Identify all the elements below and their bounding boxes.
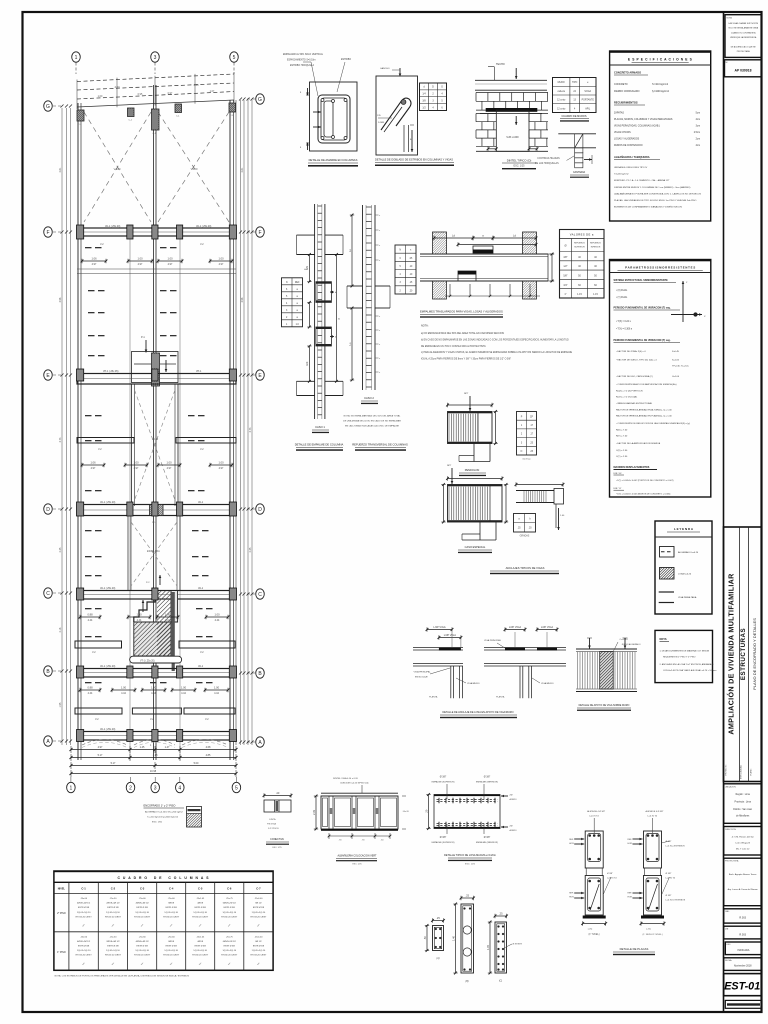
svg-text:REF: REF [295, 282, 300, 284]
svg-text:H/3: H/3 [305, 361, 309, 366]
svg-text:2.81: 2.81 [241, 167, 244, 172]
caso1 stirrup zones [316, 282, 332, 303]
svg-text:ESTR Ø 3/8: ESTR Ø 3/8 [78, 907, 90, 909]
svg-text:CONCRETO ARMADO: CONCRETO ARMADO [614, 71, 641, 75]
svg-text:G: G [258, 97, 262, 103]
svg-text:AP 030918: AP 030918 [735, 69, 752, 73]
svg-text:P-1: P-1 [141, 336, 145, 339]
svg-text:EMPALMAR AL 50% SOLO VERTICAL: EMPALMAR AL 50% SOLO VERTICAL [283, 53, 324, 56]
svg-text:CONTINUA HILADAS: CONTINUA HILADAS [537, 157, 560, 160]
beam row F [77, 228, 236, 236]
svg-text:4.85: 4.85 [206, 754, 211, 757]
detail U1 stirrup ties [318, 95, 350, 143]
svg-text:4Ø5/8: 4Ø5/8 [197, 903, 204, 905]
svg-text:4.97: 4.97 [98, 746, 103, 749]
svg-text:INFERIOR: INFERIOR [591, 247, 601, 249]
svg-text:RTO@.20 C/EXT: RTO@.20 C/EXT [192, 955, 209, 957]
svg-text:F: F [258, 230, 261, 236]
svg-text:3: 3 [154, 55, 157, 61]
svg-text:6Ø5/8+2Ø 1/2: 6Ø5/8+2Ø 1/2 [223, 941, 237, 943]
svg-text:12 cmto: 12 cmto [557, 99, 566, 102]
mid beams between E and D [77, 438, 134, 444]
svg-text:R.003: R.003 [739, 933, 746, 936]
column section B [461, 904, 474, 973]
svg-text:VA-1 (.25x.20): VA-1 (.25x.20) [100, 587, 115, 590]
stair shaft E-D [131, 384, 133, 506]
svg-text:NOTA:: NOTA: [660, 638, 668, 641]
svg-text:HOR.: HOR. [628, 897, 633, 899]
svg-text:1.47: 1.47 [165, 746, 170, 749]
svg-text:(B): (B) [465, 980, 468, 983]
stair shaft X bracing [135, 390, 176, 500]
dim groups E-D bay [82, 464, 104, 466]
svg-text:C-2: C-2 [111, 887, 116, 891]
svg-text:VALORES DE a: VALORES DE a [570, 233, 594, 237]
svg-text:1@.05+5@.10: 1@.05+5@.10 [106, 950, 120, 952]
svg-text:VA-1 (.25x.20): VA-1 (.25x.20) [100, 501, 115, 504]
parametros axis icon [682, 281, 684, 322]
table niveles T3 [282, 278, 303, 327]
svg-text:1.40: 1.40 [451, 935, 455, 941]
svg-text:.20: .20 [424, 809, 428, 813]
plan right wall [229, 100, 231, 760]
shaft above E [132, 352, 179, 383]
lintel brick courses [476, 92, 548, 94]
svg-text:L/3P VIGA: L/3P VIGA [433, 625, 445, 629]
svg-text:Ø: Ø [564, 244, 566, 248]
svg-text:REF.: REF. [569, 893, 574, 895]
slab anchor C arrows [589, 638, 591, 649]
svg-text:1@.05+5@.10: 1@.05+5@.10 [252, 912, 266, 914]
svg-text:ESTR Ø 3/8: ESTR Ø 3/8 [137, 946, 149, 948]
svg-text:VIGA/MURO: VIGA/MURO [541, 682, 554, 685]
svg-text:R.003: R.003 [739, 917, 746, 920]
svg-text:VIGAS CHATAS: VIGAS CHATAS [614, 131, 631, 134]
beam splice right dim [548, 253, 554, 255]
svg-text:FACTOR DE IRREGULARIDAD EN ALT: FACTOR DE IRREGULARIDAD EN ALTURA Ia, Q … [616, 409, 672, 412]
svg-text:4.97: 4.97 [134, 467, 139, 470]
svg-text:RTO@.20 C/EXT: RTO@.20 C/EXT [76, 955, 93, 957]
svg-text:1.05: 1.05 [486, 944, 490, 950]
svg-text:ESTR Ø 3/8: ESTR Ø 3/8 [107, 907, 119, 909]
svg-text:2: 2 [129, 785, 132, 791]
svg-text:.50: .50 [423, 936, 427, 940]
svg-text:D.MIN: D.MIN [378, 122, 385, 124]
svg-text:DETALLE DE AMARRE EN COLUMNAS: DETALLE DE AMARRE EN COLUMNAS [309, 158, 358, 162]
svg-text:TECHO: TECHO [496, 63, 505, 66]
svg-text:C-3: C-3 [140, 887, 145, 891]
svg-text:L/3P VIGA: L/3P VIGA [509, 625, 521, 629]
stair S2 leg [479, 522, 481, 540]
info box escala [725, 942, 761, 955]
svg-text:MAXIMOS DESPLAZAMIENTOS: MAXIMOS DESPLAZAMIENTOS [614, 466, 650, 469]
svg-text:HOR.: HOR. [628, 843, 633, 845]
svg-text:DETALLE TIPICO DE LOSA MACIZA: DETALLE TIPICO DE LOSA MACIZA e=0.20m [444, 854, 496, 857]
table refuerzos T4 [395, 245, 416, 294]
svg-text:4.00: 4.00 [193, 83, 199, 87]
svg-text:Z=0.45: Z=0.45 [672, 351, 680, 353]
svg-text:2.18: 2.18 [59, 627, 62, 632]
svg-text:1@.05+5@.10: 1@.05+5@.10 [222, 912, 236, 914]
svg-text:ALIGERADO h=0.20: ALIGERADO h=0.20 [678, 551, 699, 554]
svg-text:P/B VIGA: P/B VIGA [267, 823, 277, 826]
svg-text:VIGA/MURO: VIGA/MURO [467, 682, 480, 685]
svg-text:EN BLOQUE: EN BLOQUE [415, 677, 428, 679]
svg-text:RTO@.20 C/EXT: RTO@.20 C/EXT [250, 916, 267, 918]
beam splice column stubs [433, 232, 447, 254]
svg-text:U=1.00: U=1.00 [672, 376, 680, 378]
dashed arcs below A [82, 740, 127, 746]
info box profesionales [724, 858, 762, 906]
slab anchor detail B [484, 646, 566, 648]
slab anchor detail A [413, 646, 463, 648]
mid beams between B and A [75, 708, 122, 714]
svg-text:1.00: 1.00 [214, 613, 220, 617]
svg-text:G: G [46, 104, 50, 110]
plan grid 3 spine [153, 85, 155, 760]
svg-text:1.00: 1.00 [214, 686, 220, 690]
shaft hatched column [152, 353, 160, 386]
svg-text:CASO ESPECIAL: CASO ESPECIAL [465, 545, 486, 549]
svg-text:Ø 3/8": Ø 3/8" [666, 895, 672, 897]
svg-text:V-100: V-100 [152, 438, 159, 441]
svg-text:ESTR Ø 3/8: ESTR Ø 3/8 [195, 907, 207, 909]
svg-text:SOLO SE INSTALARAN EN OBRA: SOLO SE INSTALARAN EN OBRA [728, 27, 758, 30]
svg-text:1.95: 1.95 [59, 702, 62, 707]
svg-text:4.97: 4.97 [167, 467, 172, 470]
detail U1 stirrup box [310, 82, 358, 151]
svg-text:REF.: REF. [569, 839, 574, 841]
svg-text:L=0.70 y ESTRIBOS: L=0.70 y ESTRIBOS [666, 846, 686, 848]
svg-text:(1° NIVEL/2° NIVEL): (1° NIVEL/2° NIVEL) [642, 934, 662, 936]
beam row C [77, 591, 236, 600]
top bay X bracing left [84, 112, 151, 222]
svg-text:5/8": 5/8" [563, 275, 567, 278]
svg-text:DINTEL VIGA 0.14 x 0.20: DINTEL VIGA 0.14 x 0.20 [333, 777, 359, 780]
svg-text:C: C [258, 592, 262, 598]
svg-text:2.39: 2.39 [312, 809, 316, 815]
svg-text:.25x1.05: .25x1.05 [196, 898, 205, 900]
svg-text:4.68: 4.68 [206, 746, 211, 749]
svg-text:0.95: 0.95 [138, 93, 143, 96]
sheet number box EST-01 [724, 974, 762, 996]
svg-text:PROYECTO:: PROYECTO: [726, 764, 728, 776]
svg-text:VA-1 (.25x.20): VA-1 (.25x.20) [100, 665, 115, 668]
beam row A [77, 732, 236, 741]
losa maciza slab outline [434, 795, 500, 829]
svg-text:.25x.60: .25x.60 [168, 898, 176, 900]
svg-text:RTO@.20 C/EXT: RTO@.20 C/EXT [76, 916, 93, 918]
svg-text:ESTRIBO HORQUILLA: ESTRIBO HORQUILLA [290, 64, 314, 67]
svg-text:SUB.LADRI: SUB.LADRI [506, 136, 519, 139]
svg-text:1° PISO: 1° PISO [57, 951, 66, 954]
svg-text:1.00: 1.00 [133, 461, 139, 465]
svg-text:2Ø5/8+4Ø 1/2: 2Ø5/8+4Ø 1/2 [106, 941, 120, 943]
svg-text:D: D [258, 507, 262, 513]
svg-text:2.35: 2.35 [59, 547, 62, 552]
lintel side bricks [476, 113, 496, 115]
title strip notes box [725, 15, 761, 58]
svg-text:(.25): (.25) [588, 929, 593, 931]
svg-text:VIGAS PERALTADAS, COLUMNAS (AC: VIGAS PERALTADAS, COLUMNAS (ACAB.) [614, 125, 660, 128]
svg-text:NIVEL: NIVEL [58, 888, 66, 891]
dash marks B-A bay [85, 682, 92, 683]
svg-text:JUEGO ALIGERADO: JUEGO ALIGERADO [622, 643, 641, 646]
svg-text:JUNTAS ENTRE MUROS Y COLUMNAS: JUNTAS ENTRE MUROS Y COLUMNAS DE 1 cm (M… [614, 186, 691, 189]
especificaciones box [610, 51, 711, 221]
svg-text:.25x.75: .25x.75 [226, 936, 234, 938]
svg-text:1": 1" [564, 293, 566, 296]
svg-text:RECUBRIMIENTOS: RECUBRIMIENTOS [614, 101, 638, 105]
svg-text:Ø 3/8": Ø 3/8" [484, 777, 491, 779]
svg-text:RTO@.20 C/EXT: RTO@.20 C/EXT [163, 916, 180, 918]
svg-text:ESTR Ø 3/8: ESTR Ø 3/8 [137, 907, 149, 909]
svg-text:ZAPATAS: ZAPATAS [614, 112, 624, 115]
slab anchor B dims [505, 629, 525, 631]
svg-text:ESC: 1/25: ESC: 1/25 [352, 864, 362, 866]
svg-text:ESTR Ø 3/8: ESTR Ø 3/8 [107, 946, 119, 948]
svg-text:8Ø 1/2: 8Ø 1/2 [255, 903, 262, 905]
albanileria bricks [321, 796, 398, 829]
caso1 slab bands [297, 234, 315, 236]
svg-text:RTO@.20 C/EXT: RTO@.20 C/EXT [221, 955, 238, 957]
svg-text:1@.05+5@.10: 1@.05+5@.10 [77, 950, 91, 952]
svg-text:PROYECTISTA:: PROYECTISTA: [725, 860, 739, 863]
svg-text:C-6: C-6 [227, 887, 232, 891]
svg-text:INDICADA: INDICADA [738, 949, 750, 952]
svg-text:(.25): (.25) [646, 929, 651, 931]
cuadro de columnas table [54, 871, 273, 970]
svg-text:DE UNA MISMA SECCION. EN CASO: DE UNA MISMA SECCION. EN CASO DE NO EMPA… [343, 420, 401, 423]
svg-text:.25x1.05: .25x1.05 [196, 936, 205, 938]
svg-text:ACERO: ACERO [510, 829, 518, 832]
svg-text:1@.05+5@.10: 1@.05+5@.10 [193, 950, 207, 952]
title strip divider [723, 12, 725, 1012]
svg-text:1.00: 1.00 [218, 461, 224, 465]
svg-text:Cc=0.10: Cc=0.10 [620, 639, 629, 641]
svg-text:ACERO: ACERO [510, 798, 518, 801]
grid bubbles bottom [67, 782, 76, 792]
vertical title block [724, 527, 762, 782]
losa maciza right arrows [501, 795, 508, 797]
svg-text:PLANTA: PLANTA [429, 696, 438, 699]
info box ubicacion [724, 784, 762, 824]
svg-text:1@.05+5@.10: 1@.05+5@.10 [164, 950, 178, 952]
svg-text:4Ø5/8+2Ø 1/2: 4Ø5/8+2Ø 1/2 [77, 903, 91, 905]
svg-text:MURO: MURO [558, 82, 565, 84]
svg-text:ESCALERA: ESCALERA [147, 550, 160, 553]
bottom thin box [725, 1000, 761, 1008]
svg-text:.25x1.40: .25x1.40 [254, 936, 263, 938]
svg-text:CONECTIVA: CONECTIVA [270, 838, 284, 841]
svg-text:Ø 3/8": Ø 3/8" [607, 873, 613, 875]
svg-text:IGUAL A 25cm PARA FIERROS DE 8: IGUAL A 25cm PARA FIERROS DE 8mm Y 3/8" … [421, 358, 511, 361]
notas box [655, 630, 713, 682]
svg-text:Ø 3/8": Ø 3/8" [440, 837, 447, 839]
svg-text:4.97: 4.97 [138, 263, 143, 266]
svg-text:.25x.75: .25x.75 [226, 898, 234, 900]
svg-text:• D(*) = 0.0054 ≤ 0.007 (POR: • D(*) = 0.0054 ≤ 0.007 (PORTICOS DE CON… [616, 479, 674, 482]
svg-text:4Ø5/8+4Ø 1/2: 4Ø5/8+4Ø 1/2 [136, 941, 150, 943]
svg-text:1.07: 1.07 [210, 90, 215, 93]
svg-text:ESC: 1/25: ESC: 1/25 [514, 165, 526, 168]
svg-text:• T(X) = 0.24 s: • T(X) = 0.24 s [616, 321, 632, 323]
svg-text:• FACTOR DE ZONA: Z(4) = 4: • FACTOR DE ZONA: Z(4) = 4 [616, 350, 646, 353]
svg-text:1@.05+5@.10: 1@.05+5@.10 [106, 912, 120, 914]
svg-text:CASO 2: CASO 2 [364, 396, 374, 400]
svg-text:PLACAS. LAS UNIDADES DE TIPO S: PLACAS. LAS UNIDADES DE TIPO SOLIDO EN E… [614, 199, 697, 202]
svg-text:EST-01: EST-01 [724, 981, 760, 993]
svg-text:3.73: 3.73 [59, 437, 62, 442]
svg-text:Mz. T Lote 12: Mz. T Lote 12 [736, 848, 750, 851]
svg-text:CUELGUE h=0.25 S/PISO 2do: CUELGUE h=0.25 S/PISO 2do [340, 783, 369, 785]
svg-text:VIGA PRINCIPAL: VIGA PRINCIPAL [414, 671, 432, 674]
svg-text:PLACAS, MUROS, COLUMNAS Y VIGA: PLACAS, MUROS, COLUMNAS Y VIGAS PERALTAD… [614, 118, 673, 121]
svg-text:(1° NIVEL): (1° NIVEL) [588, 934, 599, 936]
svg-text:.25x.60: .25x.60 [139, 936, 147, 938]
svg-text:G: G [441, 86, 443, 89]
svg-text:V-100: V-100 [114, 167, 121, 171]
caso2 slab band [347, 285, 363, 287]
svg-text:2.81: 2.81 [59, 167, 62, 172]
lintel bottom ticks [488, 148, 496, 150]
svg-text:4.44: 4.44 [215, 619, 220, 622]
svg-text:EMPALME (INFERIOR): EMPALME (INFERIOR) [476, 781, 498, 784]
plan left wall [77, 103, 79, 760]
left dimension verticals [61, 108, 63, 745]
svg-text:1.00: 1.00 [181, 686, 187, 690]
svg-text:2Ø: 2Ø [510, 826, 513, 828]
caso2 right marks [375, 214, 379, 216]
svg-text:NPT: NPT [464, 393, 469, 395]
svg-text:TP=0.6s TL=2.0s: TP=0.6s TL=2.0s [672, 366, 690, 368]
dash marks F-E bay [85, 247, 92, 248]
svg-text:ESPECIALIDAD:: ESPECIALIDAD: [740, 764, 743, 779]
svg-text:4.97: 4.97 [219, 263, 224, 266]
slab anchor A wall [450, 666, 452, 698]
svg-text:ALETA DE 4 Ø 3/8": ALETA DE 4 Ø 3/8" [587, 810, 605, 813]
svg-text:RTO@.20 C/EXT: RTO@.20 C/EXT [134, 955, 151, 957]
stair S1 band [448, 412, 493, 444]
shaft top inner lines [134, 363, 151, 365]
beam row E [77, 374, 236, 385]
svg-text:1@.05+5@.10: 1@.05+5@.10 [164, 912, 178, 914]
svg-text:CAD:: CAD: [725, 910, 730, 913]
stair S1 leg [473, 444, 475, 462]
table gradas T7 [514, 514, 536, 533]
svg-text:ESC: 1/25: ESC: 1/25 [272, 847, 282, 849]
column splice CASO 2 ladder [362, 205, 364, 390]
detail U2 bottom dim [403, 125, 405, 152]
svg-text:ESTR Ø 3/8: ESTR Ø 3/8 [166, 946, 178, 948]
svg-text:MORTERO: P1 C:A - 1:4 CEMENTO: MORTERO: P1 C:A - 1:4 CEMENTO - CAL - AR… [614, 179, 670, 182]
column section C [495, 922, 507, 973]
svg-text:Ro(Y) = 7.0 (Y) DUAL: Ro(Y) = 7.0 (Y) DUAL [616, 396, 638, 399]
info box direccion [724, 827, 762, 856]
svg-text:cabeza: cabeza [557, 91, 565, 93]
svg-text:2cm: 2cm [696, 139, 700, 141]
svg-text:VIGA PERALTADA: VIGA PERALTADA [678, 596, 697, 599]
slab anchor C center column [600, 652, 614, 690]
svg-text:4Ø5/8: 4Ø5/8 [197, 941, 204, 943]
svg-text:10.98: 10.98 [150, 770, 157, 773]
svg-text:.25: .25 [499, 912, 503, 916]
svg-text:4cm: 4cm [696, 119, 700, 121]
svg-text:1@.05+5@.10: 1@.05+5@.10 [252, 950, 266, 952]
svg-text:1/2": 1/2" [563, 265, 567, 268]
svg-text:4: 4 [178, 785, 181, 791]
svg-text:VA-1: VA-1 [198, 665, 204, 668]
svg-text:Región : Lima: Región : Lima [736, 794, 751, 796]
svg-text:REQUIERE EN 1° PISO Y 2° PISO: REQUIERE EN 1° PISO Y 2° PISO [663, 657, 696, 659]
bottom dimension row 1 [71, 749, 236, 751]
svg-text:.14x.20: .14x.20 [402, 811, 410, 813]
svg-text:VA-1: VA-1 [198, 501, 204, 504]
svg-text:UNIDADES: KING KONG TIPO IV: UNIDADES: KING KONG TIPO IV [614, 166, 648, 169]
svg-text:4.00: 4.00 [114, 85, 120, 89]
svg-text:DIR. YY: DIR. YY [614, 488, 622, 490]
svg-text:(C): (C) [499, 980, 503, 983]
conectiva detail [264, 800, 291, 812]
svg-text:LOSA h=0.20: LOSA h=0.20 [678, 573, 692, 576]
svg-text:2.35: 2.35 [249, 547, 252, 552]
top columns row G [77, 110, 84, 121]
svg-text:(A): (A) [436, 957, 440, 960]
dim groups C-B bay [80, 616, 100, 618]
grid bubbles left [44, 101, 53, 111]
svg-text:DINTEL TIPICO (D): DINTEL TIPICO (D) [507, 159, 532, 163]
svg-text:.25x.60: .25x.60 [80, 936, 88, 938]
svg-text:Jr. 5 M. Heroes del Sur: Jr. 5 M. Heroes del Sur [732, 836, 755, 839]
svg-text:3.73: 3.73 [249, 427, 252, 432]
svg-text:LOSAS Y ALIGERADOS: LOSAS Y ALIGERADOS [614, 138, 640, 141]
shaft D-C X bracing [131, 522, 177, 586]
svg-text:C: C [46, 591, 50, 597]
svg-text:VA-1 (.25x.20): VA-1 (.25x.20) [105, 225, 120, 228]
svg-text:LA ALBAÑILERIA NO PODRA SER CO: LA ALBAÑILERIA NO PODRA SER CONSTRUIDA C… [614, 192, 701, 195]
stair steps outline [134, 591, 155, 623]
svg-text:• (Y) DUAL: • (Y) DUAL [616, 296, 628, 299]
svg-text:.25x.60: .25x.60 [80, 898, 88, 900]
table pasos T6 [517, 412, 537, 456]
svg-text:VA-1 (.25x.20): VA-1 (.25x.20) [100, 728, 115, 731]
svg-text:NOTA: LOS ESTRIBOS DE PORTICOS: NOTA: LOS ESTRIBOS DE PORTICOS PRINCIPAL… [55, 975, 190, 978]
svg-text:PERIODO FUNDAMENTAL DE VIBRACI: PERIODO FUNDAMENTAL DE VIBRACION (T) seg… [614, 307, 671, 310]
beam row D [77, 505, 236, 516]
svg-text:PLANO:: PLANO: [750, 768, 753, 775]
losa maciza left dim [428, 795, 430, 829]
beam splice dims [434, 237, 473, 239]
svg-text:L=0.70 D ESTRIBOS: L=0.70 D ESTRIBOS [666, 900, 686, 902]
svg-text:ALETA DE 4 Ø 3/8": ALETA DE 4 Ø 3/8" [646, 810, 664, 813]
plan columns [77, 225, 84, 239]
svg-text:2° PISO: 2° PISO [57, 912, 66, 915]
svg-text:L=0.70 Td: L=0.70 Td [666, 878, 676, 880]
dash marks E-D bay [85, 415, 92, 416]
svg-text:b) EN CASO DE NO EMPALMARSE E: b) EN CASO DE NO EMPALMARSE EN LAS ZONAS… [421, 338, 569, 341]
svg-text:PROYECTARA: PROYECTARA [737, 50, 751, 53]
detail U2 hook bar [381, 98, 411, 130]
svg-text:5: 5 [233, 55, 236, 61]
svg-text:ENCOFRADO 1° y 2° PISO: ENCOFRADO 1° y 2° PISO [144, 804, 176, 808]
svg-text:.25x.50: .25x.50 [110, 936, 118, 938]
svg-text:5cm: 5cm [696, 113, 700, 115]
svg-text:DE EMPALME EN UN 70% O CONSULT: DE EMPALME EN UN 70% O CONSULTAR AL PROY… [421, 345, 486, 348]
svg-text:JUNTA: JUNTA [269, 818, 276, 821]
svg-text:Noviembre 2018: Noviembre 2018 [734, 965, 752, 968]
svg-text:12 cmto: 12 cmto [557, 107, 566, 110]
slab anchor detail C hatched wall [576, 648, 637, 650]
